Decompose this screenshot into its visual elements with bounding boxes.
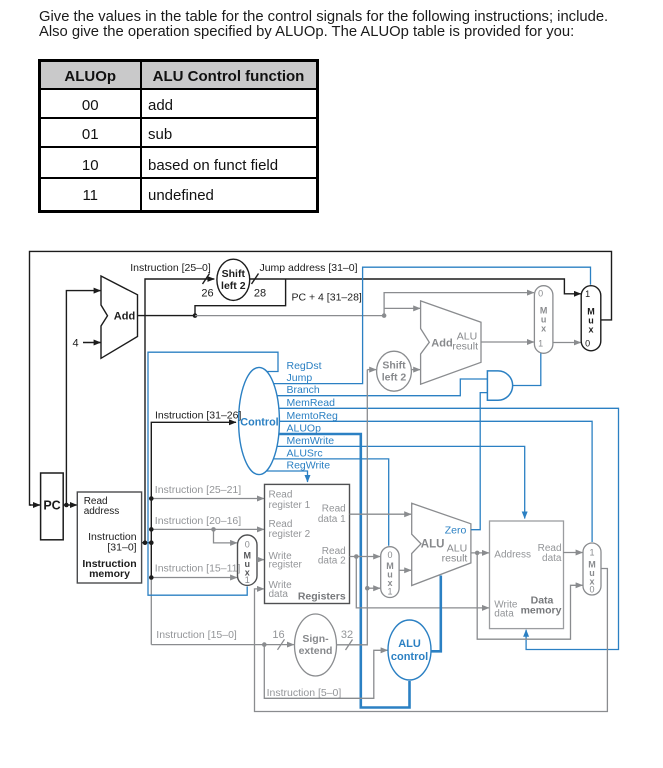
bit-width slash 28 bbox=[252, 274, 259, 285]
wire: Instruction [25-21] to read register 1 bbox=[151, 498, 264, 500]
svg-text:Instruction [25–21]: Instruction [25–21] bbox=[155, 484, 241, 496]
wire: PC output to instruction memory read address bbox=[63, 504, 77, 506]
mux: jump mux bbox=[581, 286, 601, 351]
wire: PC output up to Add input bbox=[66, 291, 100, 505]
svg-text:register: register bbox=[269, 560, 303, 571]
svg-text:Address: Address bbox=[494, 549, 531, 560]
svg-text:control: control bbox=[391, 651, 428, 663]
svg-text:1: 1 bbox=[387, 586, 392, 596]
wire: Instruction [5-0] to ALU control bbox=[264, 645, 387, 699]
svg-text:ALU: ALU bbox=[398, 638, 421, 650]
wire: data memory read data to writeback mux 1 bbox=[563, 552, 583, 554]
control unit ALU control bbox=[388, 620, 431, 680]
svg-text:register 1: register 1 bbox=[269, 500, 311, 511]
svg-text:memory: memory bbox=[89, 568, 130, 580]
node: PC+4 jump-concat junction bbox=[193, 313, 198, 318]
svg-text:Jump address [31–0]: Jump address [31–0] bbox=[259, 262, 357, 274]
control signal RegDst (blue) bbox=[148, 352, 278, 595]
svg-text:MemWrite: MemWrite bbox=[287, 435, 335, 447]
svg-text:Instruction [15–11]: Instruction [15–11] bbox=[155, 563, 241, 575]
svg-text:RegWrite: RegWrite bbox=[287, 460, 331, 472]
wire: Instruction [15-0] to sign extend bbox=[151, 644, 294, 646]
svg-text:address: address bbox=[84, 506, 120, 517]
svg-text:0: 0 bbox=[585, 338, 590, 348]
svg-text:ALUSrc: ALUSrc bbox=[287, 447, 323, 459]
svg-text:PC: PC bbox=[43, 499, 60, 513]
svg-text:Registers: Registers bbox=[298, 591, 346, 603]
wire: PC+4 output (black segment) bbox=[138, 315, 196, 317]
svg-text:28: 28 bbox=[254, 288, 266, 300]
control signal ALUSrc (blue) to ALU mux select bbox=[273, 459, 388, 546]
svg-text:26: 26 bbox=[201, 288, 213, 300]
mux: ALUSrc mux bbox=[381, 547, 399, 598]
wire: instruction memory output to bus bbox=[142, 542, 152, 544]
wire: instruction bus down (black part) bbox=[150, 543, 152, 578]
wire: shift left 2 output into branch adder bbox=[411, 369, 420, 371]
svg-text:0: 0 bbox=[245, 540, 250, 550]
svg-text:result: result bbox=[452, 341, 478, 353]
node: read data 2 junction bbox=[354, 554, 359, 559]
gate: branch AND bbox=[487, 371, 512, 400]
svg-text:32: 32 bbox=[341, 629, 353, 641]
wire: PC+4 gray segment to branch adder / mux bbox=[195, 315, 384, 317]
wire: ALUSrc mux output to ALU bbox=[399, 569, 411, 571]
wire: read data 2 to ALUSrc mux 0 bbox=[350, 556, 381, 558]
bit-width slash 26 bbox=[203, 274, 210, 285]
mux: register destination mux (RegDst) bbox=[238, 535, 258, 585]
wire: writeback mux output wraps to registers write data bbox=[255, 569, 608, 712]
wire: Instruction [25-0] tap from instruction bus up to shift-left-2 bbox=[145, 279, 214, 543]
wire: Zero flag up to AND gate bbox=[471, 393, 488, 530]
control signal MemWrite (blue) into data memory top bbox=[277, 446, 525, 518]
svg-text:register 2: register 2 bbox=[269, 529, 311, 540]
svg-text:MemRead: MemRead bbox=[287, 397, 336, 409]
svg-text:data 1: data 1 bbox=[318, 514, 346, 525]
memory: Data memory bbox=[490, 521, 564, 629]
svg-text:RegDst: RegDst bbox=[287, 360, 322, 372]
wire: read data 2 down to data memory write data bbox=[356, 557, 489, 608]
wire: jump address to jump mux input 1 bbox=[250, 279, 581, 294]
control signal MemtoReg (blue) to writeback mux select bbox=[279, 421, 592, 542]
control signal MemRead (blue) wraps to data memory bottom bbox=[279, 408, 619, 649]
wire: AND output to branch mux select bbox=[513, 353, 541, 385]
svg-text:extend: extend bbox=[299, 645, 333, 657]
svg-text:Sign-: Sign- bbox=[302, 633, 329, 645]
wire: PC+4 up and right to branch mux input 0 bbox=[384, 293, 534, 316]
svg-text:data: data bbox=[494, 609, 514, 620]
svg-text:0: 0 bbox=[538, 289, 543, 299]
svg-text:PC + 4 [31–28]: PC + 4 [31–28] bbox=[292, 292, 362, 304]
svg-text:1: 1 bbox=[589, 548, 594, 558]
mux: writeback mux bbox=[583, 543, 601, 595]
node: bus junction (main) bbox=[149, 540, 154, 545]
memory: Instruction memory bbox=[77, 492, 141, 583]
wire: Instruction [31-26] from bus into Control bbox=[151, 422, 236, 542]
svg-text:Instruction [20–16]: Instruction [20–16] bbox=[155, 515, 241, 527]
control signal Jump (blue) bbox=[274, 267, 591, 383]
wire: branch adder output to branch mux input 1 bbox=[481, 341, 534, 343]
wire: instruction bus down (gray part to Instr[15-0]) bbox=[150, 578, 152, 645]
svg-text:Jump: Jump bbox=[287, 372, 313, 384]
sign extender bbox=[295, 614, 337, 676]
svg-text:4: 4 bbox=[72, 338, 78, 350]
node: bus junction (Instr 25-0 tap) bbox=[143, 540, 148, 545]
svg-text:Add: Add bbox=[114, 311, 135, 323]
ALUOp table bbox=[0, 0, 663, 1]
svg-text:0: 0 bbox=[387, 550, 392, 560]
svg-text:ALUOp: ALUOp bbox=[287, 423, 322, 435]
wire: PC+4[31-28] concat up to jump address line bbox=[195, 279, 286, 316]
wire: sign-extend output up into shift left 2 bbox=[367, 369, 376, 371]
svg-text:data 2: data 2 bbox=[318, 555, 346, 566]
wire: PC update loop from jump mux output around top to PC input bbox=[30, 251, 612, 505]
svg-text:1: 1 bbox=[585, 289, 590, 299]
shifter Shift left 2 (jump) bbox=[217, 259, 250, 300]
svg-text:1: 1 bbox=[538, 339, 543, 349]
control signal RegWrite (blue) into registers top bbox=[266, 471, 307, 482]
control unit Control bbox=[239, 367, 280, 474]
shifter Shift left 2 (branch) bbox=[377, 351, 412, 391]
svg-text:memory: memory bbox=[521, 605, 562, 617]
svg-text:left 2: left 2 bbox=[221, 280, 246, 292]
mux: branch mux (PC+4 / branch target) bbox=[534, 286, 553, 354]
wire: branch mux output to jump mux input 0 bbox=[553, 342, 581, 344]
wire: Instruction [20-16] to read register 2 and regdst mux 0 bbox=[151, 528, 264, 530]
svg-text:result: result bbox=[442, 553, 468, 565]
wire: ALU control output to ALU (thick blue) bbox=[431, 576, 441, 652]
node: PC+4 branch junction bbox=[382, 313, 387, 318]
svg-text:16: 16 bbox=[272, 629, 284, 641]
svg-text:x: x bbox=[541, 324, 546, 334]
svg-text:Instruction [15–0]: Instruction [15–0] bbox=[156, 629, 237, 641]
svg-text:Add: Add bbox=[431, 337, 452, 349]
register file Registers bbox=[265, 484, 350, 603]
svg-text:data: data bbox=[269, 589, 289, 600]
wire: ALU result to data memory address bbox=[471, 552, 489, 554]
svg-text:Shift: Shift bbox=[382, 360, 406, 372]
svg-text:ALU: ALU bbox=[421, 538, 445, 550]
ALU bbox=[412, 503, 471, 585]
svg-text:1: 1 bbox=[245, 575, 250, 585]
wire: read data 1 to ALU input bbox=[350, 513, 412, 515]
svg-text:Branch: Branch bbox=[287, 384, 320, 396]
control signal ALUOp (thick blue) to ALU control bbox=[279, 434, 410, 708]
wire: sign extend output up to shift-left-2 and ALUSrc mux 1 bbox=[337, 370, 368, 645]
svg-text:Instruction [5–0]: Instruction [5–0] bbox=[267, 687, 342, 699]
svg-text:Zero: Zero bbox=[445, 524, 467, 536]
svg-text:Control: Control bbox=[240, 417, 278, 429]
svg-text:Instruction [25–0]: Instruction [25–0] bbox=[130, 262, 211, 274]
svg-text:0: 0 bbox=[589, 584, 594, 594]
node: PC output junction bbox=[64, 503, 69, 508]
adder Add ALU result (branch) bbox=[421, 301, 481, 384]
wire: ALU result bypass to writeback mux 0 bbox=[477, 553, 582, 639]
wire: regdst mux output to write register bbox=[257, 559, 264, 561]
svg-text:data: data bbox=[542, 553, 562, 564]
svg-text:[31–0]: [31–0] bbox=[107, 542, 136, 554]
svg-text:MemtoReg: MemtoReg bbox=[287, 410, 339, 422]
svg-text:left 2: left 2 bbox=[382, 372, 407, 384]
wire: Instruction [15-11] to regdst mux 1 bbox=[151, 577, 237, 579]
svg-text:x: x bbox=[588, 324, 593, 334]
svg-text:Shift: Shift bbox=[222, 268, 246, 280]
control signal Branch (blue) bbox=[277, 379, 487, 396]
svg-text:Instruction [31–26]: Instruction [31–26] bbox=[155, 410, 241, 422]
register PC bbox=[41, 473, 64, 540]
wire: PC+4 stub into branch adder top input bbox=[384, 307, 420, 309]
node: ALU result junction bbox=[475, 551, 480, 556]
adder Add (PC+4) bbox=[101, 276, 138, 358]
